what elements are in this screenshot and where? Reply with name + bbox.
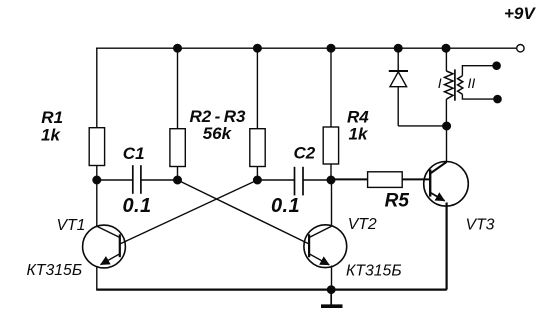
wire VT2 emitter <box>331 266 333 290</box>
diode VD1 <box>389 71 408 126</box>
wire VT2 collector <box>331 180 333 226</box>
node transformer top <box>442 44 450 52</box>
svg-text:VT1: VT1 <box>57 217 86 234</box>
wire top rail <box>96 47 517 49</box>
wire bottom rail <box>96 289 447 291</box>
wire VT1 collector <box>96 180 98 227</box>
wire VT3 collector <box>446 126 448 163</box>
node C (R3/C2) <box>254 176 262 184</box>
svg-text:VT2: VT2 <box>348 216 377 233</box>
capacitor C1 <box>133 165 141 194</box>
terminal secondary top <box>493 62 500 69</box>
svg-text:+9V: +9V <box>504 4 536 23</box>
wire R3 bottom <box>256 167 258 181</box>
wire node A to C1 <box>97 179 133 181</box>
svg-text:VT3: VT3 <box>466 217 495 234</box>
svg-text:1k: 1k <box>349 125 369 144</box>
wire diode branch top <box>397 48 399 71</box>
wire VT3 emitter <box>446 203 448 290</box>
svg-text:0.1: 0.1 <box>123 195 152 217</box>
transformer core <box>454 69 456 100</box>
node D (R4/C2/VT2 collector/R5) <box>327 176 335 184</box>
svg-text:КТ315Б: КТ315Б <box>346 262 402 279</box>
wire R2 bottom <box>177 167 179 181</box>
wire R2 branch top <box>177 48 179 129</box>
svg-text:R5: R5 <box>385 191 410 212</box>
transformer T1 primary winding <box>445 71 454 99</box>
svg-text:0.1: 0.1 <box>271 195 300 217</box>
node R3 top <box>254 44 262 52</box>
terminal secondary bottom <box>494 96 501 103</box>
svg-text:КТ315Б: КТ315Б <box>27 262 83 279</box>
svg-text:1k: 1k <box>41 126 61 145</box>
cross wire node C to VT1 base <box>120 180 258 244</box>
wire secondary top lead <box>462 66 493 76</box>
resistor R4 <box>323 127 338 164</box>
resistor R3 <box>250 129 265 167</box>
transformer T1 secondary winding <box>458 76 463 95</box>
wire node D to R5 <box>331 178 368 180</box>
wire diode bottom to primary <box>398 125 446 127</box>
wire C2 to node D <box>303 179 331 181</box>
svg-text:C2: C2 <box>294 144 316 163</box>
resistor R5 <box>368 172 403 188</box>
wire R5 to VT3 base <box>402 178 430 180</box>
wire R1 branch top <box>96 48 98 129</box>
node ground junction <box>328 286 335 293</box>
svg-text:II: II <box>468 75 476 91</box>
svg-text:R1: R1 <box>41 108 63 127</box>
node primary bottom junction <box>443 122 451 130</box>
wire secondary bottom lead <box>462 94 494 99</box>
wire R4 branch top <box>330 48 332 127</box>
wire node C to C2 <box>257 179 294 181</box>
svg-text:56k: 56k <box>203 124 233 143</box>
svg-text:I: I <box>438 75 442 91</box>
node R4 top <box>327 44 335 52</box>
wire primary bottom <box>445 99 447 126</box>
resistor R2 <box>170 129 185 167</box>
transistor VT3 <box>424 162 469 207</box>
svg-text:R2 - R3: R2 - R3 <box>190 107 246 126</box>
node A (R1/C1/VT1 collector) <box>93 176 101 184</box>
wire R3 branch top <box>256 48 258 129</box>
terminal +9V open circle <box>517 45 524 52</box>
node R2 top <box>174 44 182 52</box>
wire R4 bottom <box>330 164 332 180</box>
transistor VT1 <box>83 225 126 268</box>
wire R1 bottom <box>96 166 98 181</box>
node diode top <box>394 44 402 52</box>
wire ground stub <box>330 290 332 305</box>
ground <box>321 304 343 308</box>
wire primary top <box>445 48 447 71</box>
cross wire node B to VT2 base <box>178 180 310 244</box>
wire C1 to node B <box>141 179 178 181</box>
resistor R1 <box>89 128 104 166</box>
node B (R2/C1) <box>174 176 182 184</box>
svg-text:C1: C1 <box>123 144 145 163</box>
capacitor C2 <box>295 167 304 196</box>
transistor VT2 <box>304 225 347 268</box>
wire VT1 emitter <box>96 266 98 290</box>
